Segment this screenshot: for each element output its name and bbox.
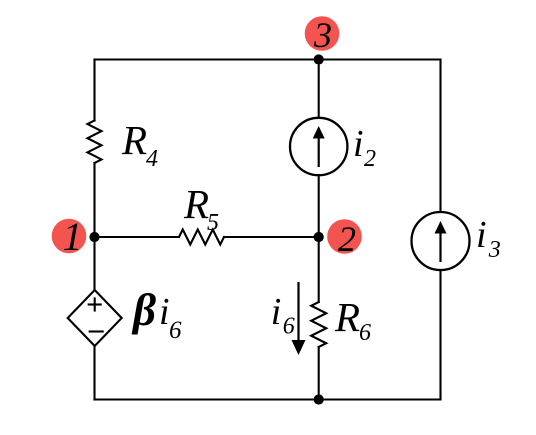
svg-text:5: 5 (207, 210, 219, 236)
svg-text:i: i (271, 291, 282, 333)
svg-text:R: R (121, 117, 147, 163)
svg-text:3: 3 (488, 237, 501, 263)
svg-text:i: i (353, 123, 364, 165)
svg-text:6: 6 (283, 314, 295, 340)
svg-text:2: 2 (338, 219, 356, 259)
svg-text:1: 1 (63, 214, 83, 259)
svg-text:6: 6 (359, 320, 371, 346)
svg-text:3: 3 (313, 15, 332, 55)
svg-text:i: i (159, 291, 170, 333)
svg-text:4: 4 (146, 146, 158, 172)
svg-text:2: 2 (364, 146, 376, 172)
svg-text:i: i (476, 214, 487, 256)
svg-text:6: 6 (169, 317, 182, 344)
svg-text:R: R (334, 294, 360, 340)
svg-text:R: R (183, 181, 209, 227)
svg-text:β: β (131, 285, 156, 335)
